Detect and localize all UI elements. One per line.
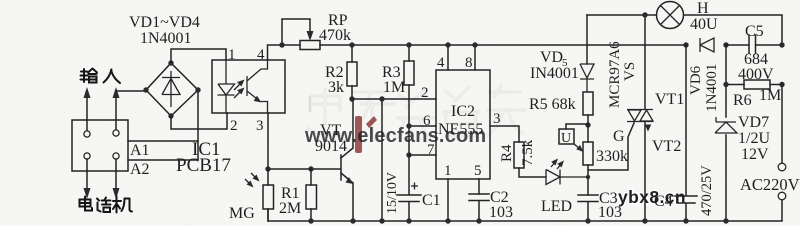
node collector/R2 (349, 96, 354, 101)
node pin6/R3 (406, 123, 411, 128)
svg-text:1M: 1M (383, 79, 405, 96)
capacitor C5 (749, 35, 756, 53)
resistor R5 (583, 92, 593, 115)
svg-text:6: 6 (423, 113, 431, 129)
wire: phone stub right with arrow (115, 159, 117, 188)
svg-text:C1: C1 (422, 192, 441, 209)
pin 3 wire (490, 126, 519, 142)
wire: opto pin3 down to MG node (267, 113, 269, 169)
svg-text:G: G (613, 128, 625, 145)
node R2 top (349, 42, 354, 47)
LED (546, 170, 588, 185)
svg-text:R5 68k: R5 68k (529, 96, 576, 113)
node bridge left (143, 87, 148, 92)
svg-text:NE555: NE555 (438, 121, 483, 138)
wire: opto pin4 up to RP node (268, 45, 283, 60)
node rail C2 (476, 218, 481, 223)
node rail x382 (379, 218, 384, 223)
AC terminal bottom (778, 192, 786, 200)
triac VS MCR97A6 (644, 15, 646, 221)
pin 6 wire (409, 125, 436, 127)
svg-text:PCB17: PCB17 (176, 155, 231, 176)
wire: pin2 line from R2/collector to IC2 (352, 98, 436, 100)
connector terminal box (72, 120, 128, 171)
opto phototransistor (247, 60, 268, 113)
svg-text:103: 103 (489, 204, 513, 221)
svg-text:IN4001: IN4001 (530, 65, 579, 82)
watermark ghost logo 电子发烧友 (306, 84, 526, 140)
svg-text:VT: VT (320, 122, 342, 139)
MG light arrows (245, 179, 251, 185)
C1 plus sign (411, 183, 418, 190)
node rail VD7 (723, 218, 728, 223)
svg-text:2M: 2M (279, 200, 301, 217)
pin 4 wire (447, 45, 449, 70)
svg-text:470k: 470k (319, 27, 351, 44)
wire: bridge right corner down to A2 (197, 90, 199, 160)
opto light arrows (234, 82, 242, 90)
node bridge right (195, 87, 200, 92)
svg-text:VT1: VT1 (655, 91, 684, 108)
resistor R1 (310, 169, 312, 185)
label 输入 (81, 69, 121, 84)
svg-text:3: 3 (493, 111, 501, 127)
svg-text:U: U (561, 131, 571, 146)
bridge inner diode (162, 71, 180, 107)
node bridge top (168, 60, 173, 65)
U arrow to 330k (574, 144, 580, 149)
node LED junction (586, 175, 590, 179)
resistor R3 (408, 45, 410, 61)
node R6 right (779, 82, 784, 87)
svg-text:1: 1 (444, 163, 452, 179)
svg-text:7: 7 (427, 142, 435, 158)
node VD6 right (723, 42, 728, 47)
svg-text:VS: VS (622, 62, 638, 81)
terminal circles (84, 131, 90, 137)
svg-text:40U: 40U (690, 16, 718, 33)
svg-text:VT2: VT2 (652, 138, 681, 155)
capacitor C3 (578, 195, 598, 221)
node rail C4 (683, 218, 688, 223)
node pin4 (445, 42, 450, 47)
svg-text:470/25V: 470/25V (699, 165, 715, 216)
svg-text:VD6: VD6 (688, 65, 704, 95)
svg-text:R4: R4 (499, 144, 515, 162)
wire: input to bridge left corner (116, 90, 146, 92)
svg-text:VD: VD (540, 49, 563, 66)
wire: phone stub left with arrow (86, 159, 88, 188)
node pin8 (472, 42, 477, 47)
svg-text:1M: 1M (759, 87, 781, 104)
svg-text:VD1~VD4: VD1~VD4 (129, 14, 200, 31)
svg-text:2: 2 (230, 118, 238, 134)
svg-text:A2: A2 (130, 161, 150, 178)
svg-text:1N4001: 1N4001 (704, 64, 720, 112)
svg-text:C4: C4 (654, 193, 673, 210)
wire: input stub right with arrow (115, 98, 117, 130)
svg-text:1: 1 (228, 47, 236, 63)
wire: right vertical x726 (725, 45, 727, 221)
transistor VT 9014 (268, 155, 341, 180)
svg-text:MCR97A6: MCR97A6 (607, 41, 623, 108)
bridge rectifier VD1~VD4 (146, 63, 198, 116)
svg-text:330k: 330k (596, 148, 628, 165)
diode VD6 (700, 38, 714, 52)
pin 7 wire (409, 154, 436, 156)
wire: lamp top line (587, 15, 782, 44)
node U/330k top (585, 122, 590, 127)
svg-text:VD7: VD7 (738, 114, 769, 131)
wire: A2 line (128, 159, 198, 161)
svg-text:1N4001: 1N4001 (140, 30, 192, 47)
opto LED (218, 60, 235, 113)
svg-text:103: 103 (598, 204, 622, 221)
label 电话机 (80, 197, 133, 213)
potentiometer RP (300, 41, 320, 50)
wire: gate line (588, 123, 634, 170)
node bridge bottom (168, 113, 173, 118)
wire: vertical to ground at x382 (381, 99, 383, 221)
wire: bottom rail (268, 200, 782, 221)
node lamp/triac (642, 12, 647, 17)
RP wiper loop (282, 19, 310, 45)
svg-text:H: H (697, 0, 709, 17)
capacitor C1 (397, 155, 421, 221)
wire: input stub left with arrow (86, 98, 88, 131)
resistor R6 (744, 80, 770, 89)
node x382 top (379, 96, 384, 101)
svg-text:3: 3 (256, 118, 264, 134)
node rail pin1 (445, 218, 450, 223)
node rail C1 (406, 218, 411, 223)
resistor R4 (514, 142, 524, 168)
watermark red flame accent (355, 116, 377, 153)
svg-text:A1: A1 (130, 142, 150, 159)
U control box (559, 129, 574, 144)
node RP left (279, 42, 284, 47)
svg-text:15/10V: 15/10V (385, 172, 400, 214)
svg-text:1/2U: 1/2U (738, 130, 770, 147)
node R1 top (308, 166, 313, 171)
svg-text:9014: 9014 (315, 138, 347, 155)
svg-text:LED: LED (541, 198, 572, 215)
capacitor C2 (469, 194, 489, 221)
LED light arrows (551, 161, 556, 167)
IC2 NE555 box (436, 70, 490, 179)
svg-text:AC220V: AC220V (740, 175, 800, 194)
svg-text:ybx8.cn: ybx8.cn (618, 187, 686, 207)
pin 1 wire (447, 179, 449, 221)
svg-text:IC2: IC2 (451, 103, 475, 120)
pin 5 wire (478, 179, 480, 194)
svg-text:C5: C5 (745, 23, 764, 40)
node R3 top (406, 42, 411, 47)
wire: top rail (282, 44, 686, 46)
svg-text:5: 5 (474, 163, 482, 179)
wire: AC right vertical (781, 85, 783, 164)
svg-text:MG: MG (229, 205, 255, 222)
node rail R1 (308, 218, 313, 223)
capacitor C4 (675, 45, 697, 221)
node rail triac (642, 218, 647, 223)
diode VD5 (586, 15, 588, 64)
pin 8 wire (474, 45, 476, 70)
node rail C3 (585, 218, 590, 223)
node C5 right corner (779, 42, 784, 47)
resistor R2 (351, 45, 353, 62)
resistor 330k (587, 125, 589, 142)
svg-text:4: 4 (437, 55, 445, 71)
node pin7/C1 (406, 152, 411, 157)
photoresistor MG (267, 169, 269, 185)
svg-text:7.5k: 7.5k (520, 139, 536, 166)
wire: A1 line (128, 140, 198, 142)
lamp H (657, 2, 684, 29)
opto-coupler IC1 box (212, 60, 285, 113)
svg-text:12V: 12V (741, 146, 769, 163)
U box feed wire (566, 124, 588, 129)
svg-text:2: 2 (421, 85, 429, 101)
svg-text:4: 4 (257, 47, 265, 63)
svg-text:R6: R6 (733, 92, 752, 109)
node VD6 left / C4 top (683, 42, 688, 47)
AC terminal top (778, 163, 786, 171)
wire: bridge bottom to opto pin2 (171, 113, 227, 129)
zener VD7 (715, 117, 737, 133)
wire: bridge top to opto pin1 (171, 49, 226, 63)
node rail emitter (350, 218, 355, 223)
node R6 left (723, 82, 728, 87)
svg-text:8: 8 (465, 55, 473, 71)
node MG line left (265, 166, 270, 171)
svg-text:3k: 3k (328, 79, 344, 96)
